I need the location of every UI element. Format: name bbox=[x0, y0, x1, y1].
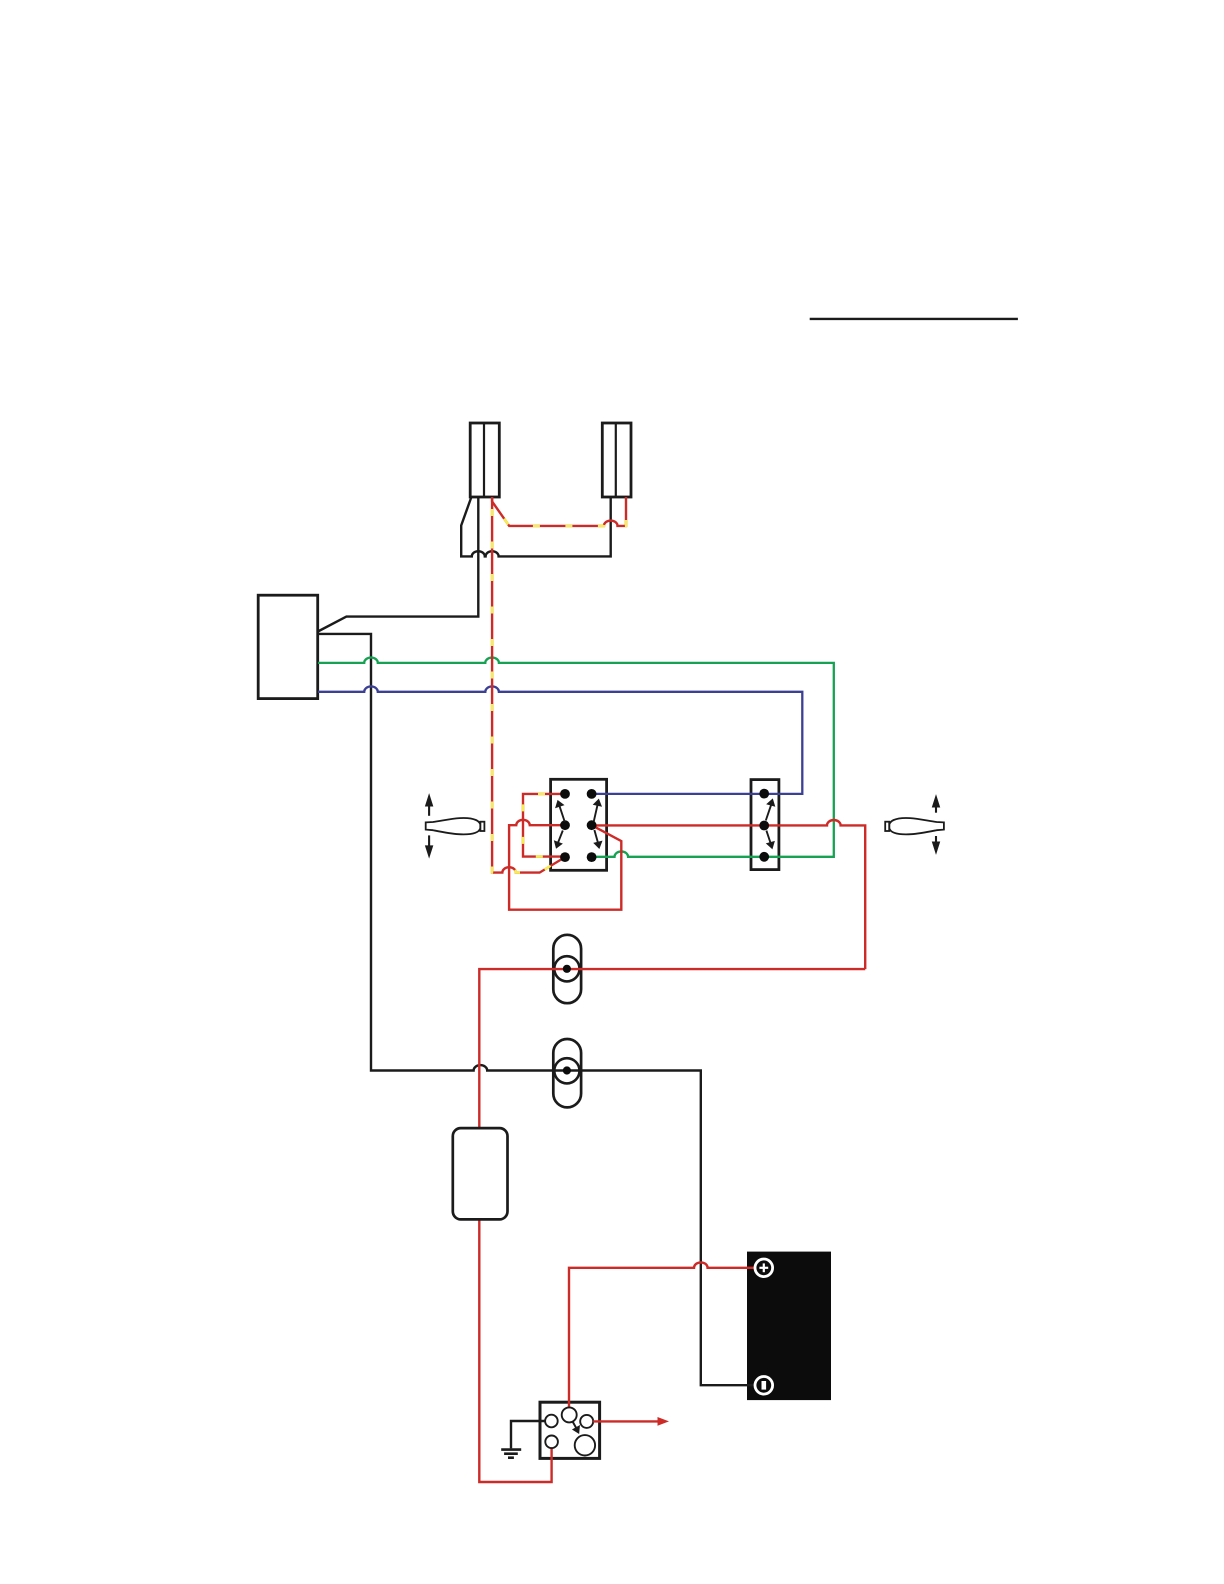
battery positive terminal bbox=[755, 1259, 773, 1277]
control box B1 bbox=[258, 595, 318, 698]
lever L2 arrows bbox=[933, 798, 939, 852]
relay K1 internal arrow bbox=[573, 1422, 579, 1433]
red wire S1 to S2 to junction bbox=[592, 820, 866, 969]
switch S2 terminals bbox=[759, 789, 769, 862]
breaker CB1 terminal dot bbox=[563, 965, 571, 973]
battery body bbox=[747, 1252, 831, 1401]
relay K1 pins bbox=[545, 1407, 595, 1455]
connector P2 (right) bbox=[602, 423, 631, 497]
connector P1 (left) bbox=[470, 423, 499, 497]
red output wire with arrow bbox=[593, 1417, 669, 1426]
red wire S1 middle loop bbox=[509, 820, 621, 910]
ground symbol bbox=[501, 1421, 545, 1458]
red wire CB1 run down to relay bbox=[479, 969, 865, 1482]
breaker CB2 terminal dot bbox=[563, 1066, 571, 1074]
black ground wire B1 to battery negative bbox=[318, 634, 756, 1385]
black wire P1 to box B1 bbox=[318, 497, 478, 632]
red/yellow striped wire: P1 to P2 jumper bbox=[492, 497, 626, 526]
fuse F1 bbox=[453, 1128, 508, 1219]
switch S1 terminals bbox=[560, 789, 596, 862]
switch S1 body bbox=[551, 779, 607, 870]
switch S2 throw arrows bbox=[766, 800, 774, 848]
red/yellow striped wire: P1 down to S1 bbox=[492, 497, 565, 873]
green wire B1 to S2/S1 bbox=[318, 658, 834, 857]
switch S1 throw arrows bbox=[555, 800, 601, 847]
blue wire B1 to S2/S1 bbox=[318, 686, 802, 794]
lever L1 (left) bbox=[426, 818, 485, 834]
plug shell under P1 bbox=[461, 497, 611, 556]
lever L1 arrows bbox=[426, 797, 432, 856]
battery negative terminal bbox=[755, 1377, 773, 1395]
circuit breaker CB2 body bbox=[553, 1039, 581, 1107]
red wire battery feed from relay top bbox=[569, 1262, 756, 1408]
red/yellow striped jumper at S1 (top-left to bottom-left) bbox=[523, 794, 565, 857]
switch S2 body bbox=[751, 780, 779, 870]
lever L2 (right) bbox=[885, 818, 944, 834]
blank label rule bbox=[810, 318, 1018, 320]
circuit breaker CB1 body bbox=[553, 935, 581, 1003]
relay K1 body bbox=[540, 1402, 600, 1458]
